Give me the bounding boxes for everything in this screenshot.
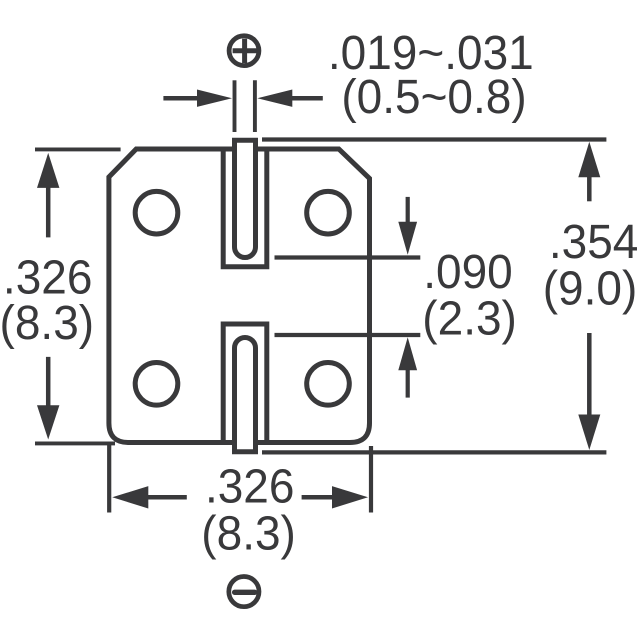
capacitor body outline [109, 149, 370, 443]
mounting hole bottom-right [307, 363, 350, 406]
lead width dimension arrow right [257, 90, 323, 107]
lead width extension line right [253, 80, 257, 132]
body height extension line top [35, 147, 121, 151]
svg-text:(9.0): (9.0) [543, 261, 638, 315]
mounting hole bottom-left [135, 363, 178, 406]
positive terminal cutout [223, 149, 267, 267]
gap leader line upper [275, 255, 421, 259]
overall height dimension arrow up [578, 142, 600, 202]
svg-text:(8.3): (8.3) [201, 507, 296, 561]
gap leader line lower [275, 333, 421, 337]
body height extension line bottom [35, 441, 115, 445]
lead width dimension arrow left [163, 90, 232, 107]
overall height extension line top [262, 137, 606, 141]
mounting hole top-left [135, 191, 178, 234]
svg-text:(8.3): (8.3) [0, 296, 94, 350]
negative polarity symbol [229, 577, 259, 607]
body height dimension arrow up [37, 153, 59, 238]
body width extension line left [107, 444, 111, 513]
body width extension line right [369, 446, 373, 513]
negative terminal cutout [223, 324, 267, 443]
body width dimension arrow right [302, 486, 368, 508]
negative lead [235, 338, 256, 452]
overall height dimension arrow down [578, 333, 600, 450]
svg-text:(0.5~0.8): (0.5~0.8) [341, 70, 526, 124]
svg-text:(2.3): (2.3) [422, 291, 517, 345]
positive polarity symbol [229, 36, 259, 66]
gap dimension arrow upper [398, 197, 417, 255]
gap dimension arrow lower [398, 337, 417, 397]
overall height extension line bottom [262, 450, 606, 454]
body width dimension arrow left [112, 486, 187, 508]
lead width extension line left [233, 80, 237, 132]
svg-text:.326: .326 [205, 459, 295, 513]
mounting hole top-right [307, 191, 350, 234]
body height dimension arrow down [37, 357, 59, 440]
positive lead [235, 140, 256, 257]
